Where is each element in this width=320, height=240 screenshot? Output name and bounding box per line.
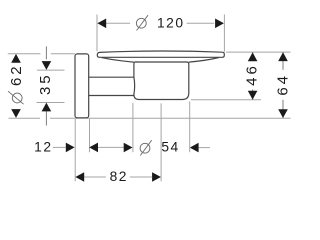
svg-text:12: 12 [34,139,52,154]
svg-text:120: 120 [157,16,185,31]
svg-text:82: 82 [110,169,128,184]
svg-text:35: 35 [37,72,54,95]
svg-text:64: 64 [275,73,292,96]
svg-text:62: 62 [8,63,25,86]
svg-text:46: 46 [244,63,261,86]
svg-text:54: 54 [161,140,179,155]
